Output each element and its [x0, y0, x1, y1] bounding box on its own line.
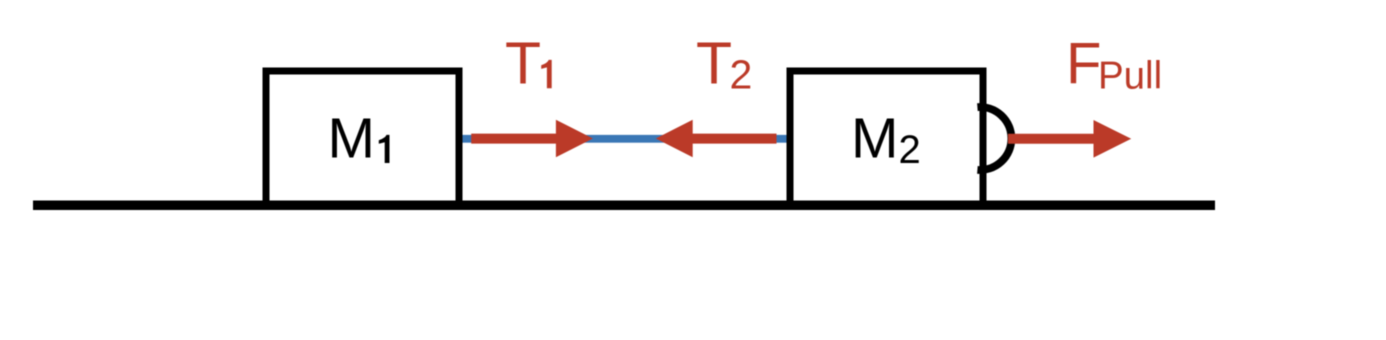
block M1	[266, 71, 459, 205]
wire: blue rope between block M1 and block M2	[458, 135, 789, 143]
svg-text:FPull: FPull	[1066, 32, 1162, 98]
block M2	[790, 71, 983, 205]
arrow T2 (tension on M2, pointing left)	[656, 120, 777, 158]
svg-text:M: M	[328, 107, 375, 171]
svg-text:T: T	[505, 31, 541, 97]
arrow F_Pull (pull force on M2, pointing right)	[1008, 120, 1131, 158]
ground line	[33, 201, 1215, 211]
hook on right side of M2	[977, 107, 1011, 170]
svg-text:T2: T2	[696, 31, 752, 98]
arrow T1 (tension on M1, pointing right)	[471, 120, 593, 158]
